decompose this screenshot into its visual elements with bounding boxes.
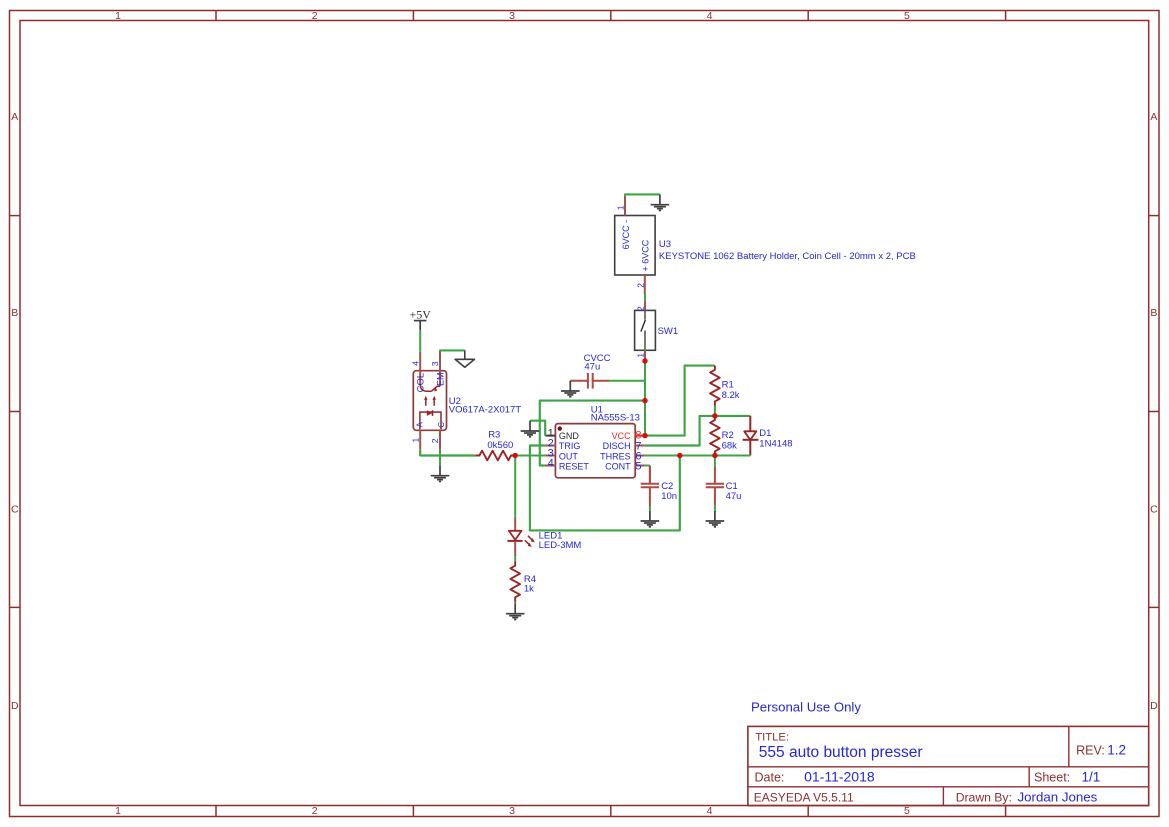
- svg-text:A: A: [416, 422, 425, 428]
- C1 value 47u: [726, 491, 742, 502]
- ground at U2 pin2: [431, 465, 450, 481]
- SW1 pin 2 number: [635, 306, 645, 311]
- diode D1: [743, 416, 759, 456]
- U2 pin 2 number: [430, 438, 440, 443]
- U2 phototransistor: [420, 371, 440, 392]
- wire U2 pin1 to R3: [420, 450, 475, 456]
- drawn by label: [956, 790, 1012, 804]
- U1 pin name GND: [559, 431, 580, 441]
- resistor R3: [475, 451, 515, 461]
- U2 pin name A: [416, 422, 425, 428]
- C1 refdes: [726, 481, 738, 492]
- battery holder U3 body: [615, 216, 655, 276]
- op-amp U1 body: [555, 424, 635, 478]
- +5V label: [409, 308, 431, 322]
- svg-text:3: 3: [430, 361, 440, 366]
- title block grid: [748, 726, 1149, 805]
- svg-text:10n: 10n: [661, 491, 677, 502]
- sheet value 1/1: [1082, 770, 1101, 785]
- svg-text:1N4148: 1N4148: [759, 438, 792, 449]
- U3 pin 1: [624, 196, 626, 216]
- ground at C2: [641, 511, 660, 527]
- svg-text:TITLE:: TITLE:: [755, 731, 789, 743]
- ground at R4: [506, 603, 525, 619]
- svg-text:Jordan Jones: Jordan Jones: [1018, 790, 1098, 805]
- wire +5V to U2 pin4: [419, 330, 421, 352]
- U1 pin name VCC: [612, 431, 632, 441]
- svg-text:B: B: [1150, 307, 1157, 319]
- ground at C1: [706, 511, 725, 527]
- U3 pin 2: [644, 275, 646, 294]
- svg-text:LED-3MM: LED-3MM: [539, 540, 582, 551]
- U3 value KEYSTONE 1062: [659, 251, 916, 262]
- svg-text:2: 2: [635, 306, 645, 311]
- wire battery to switch: [644, 294, 646, 301]
- svg-text:GND: GND: [559, 431, 580, 441]
- U1 pin name CONT: [605, 461, 631, 471]
- R3 value 0k560: [487, 440, 513, 451]
- svg-text:1: 1: [635, 353, 645, 358]
- resistor R1: [710, 366, 720, 406]
- svg-text:D: D: [1150, 700, 1158, 712]
- svg-text:Date:: Date:: [755, 771, 785, 785]
- U1 pin 7 DISCH stub: [635, 445, 645, 447]
- svg-text:01-11-2018: 01-11-2018: [804, 769, 875, 785]
- U3 pin 2 number: [635, 283, 645, 288]
- LED1 refdes: [539, 530, 563, 541]
- date label: [755, 771, 785, 785]
- D1 value 1N4148: [759, 438, 792, 449]
- svg-text:VCC: VCC: [612, 431, 632, 441]
- power flag +5V: [414, 321, 427, 331]
- svg-text:4: 4: [411, 361, 421, 366]
- svg-text:2: 2: [430, 438, 440, 443]
- svg-text:COL: COL: [415, 373, 426, 393]
- svg-text:B: B: [11, 307, 18, 319]
- U1 pin name OUT: [559, 451, 579, 461]
- U2 refdes: [449, 396, 461, 407]
- svg-text:D1: D1: [759, 428, 771, 439]
- R4 refdes: [524, 574, 536, 585]
- wire battery pin1 to ground: [625, 194, 660, 195]
- svg-text:DISCH: DISCH: [603, 441, 631, 451]
- U1 pin number 2: [548, 438, 554, 450]
- U2 pin name EM: [436, 373, 446, 387]
- svg-text:1: 1: [115, 805, 121, 817]
- U2 pin 1 number: [411, 438, 421, 443]
- wire R4 to ground: [514, 602, 516, 604]
- capacitor C2: [641, 466, 659, 511]
- D1 refdes: [759, 428, 771, 439]
- U2 pin 4 number: [411, 361, 421, 366]
- wire U2 pin3 to ground: [440, 349, 465, 352]
- U1 pin 1 GND stub: [545, 435, 555, 437]
- svg-text:1/1: 1/1: [1082, 770, 1101, 785]
- U1 pin number 5: [635, 461, 641, 473]
- svg-text:1: 1: [115, 10, 121, 22]
- U2 pin 3 number: [430, 361, 440, 366]
- capacitor CVCC: [570, 373, 609, 389]
- svg-text:EASYEDA V5.5.11: EASYEDA V5.5.11: [754, 790, 854, 804]
- U1 pin 6 THRES stub: [635, 455, 645, 457]
- svg-text:3: 3: [509, 805, 515, 817]
- U2 pin 2: [439, 430, 441, 449]
- svg-text:CONT: CONT: [605, 461, 631, 471]
- R2 refdes: [722, 430, 734, 441]
- svg-text:1: 1: [411, 438, 421, 443]
- U1 pin name THRES: [600, 451, 631, 461]
- wire R3 to OUT: [515, 455, 545, 457]
- wire CVCC to VCC: [609, 380, 645, 382]
- drawn by value Jordan Jones: [1018, 790, 1098, 805]
- U1 value NA555S-13: [591, 413, 640, 424]
- U3 pin 1 number: [616, 205, 626, 210]
- svg-text:1k: 1k: [524, 583, 534, 594]
- svg-text:4: 4: [707, 805, 713, 817]
- svg-text:4: 4: [707, 10, 713, 22]
- R1 value 8.2k: [722, 390, 740, 401]
- text Personal Use Only: [751, 700, 861, 715]
- wire VCC vertical: [644, 361, 646, 436]
- SW1 actuator: [641, 310, 646, 347]
- node pin8 junction: [643, 433, 648, 438]
- svg-text:3: 3: [509, 10, 515, 22]
- wire R1 to rail: [714, 406, 716, 416]
- svg-text:OUT: OUT: [559, 451, 579, 461]
- CVCC refdes: [584, 353, 611, 364]
- wire RESET rail: [540, 401, 645, 466]
- R1 refdes: [722, 380, 734, 391]
- svg-text:TRIG: TRIG: [559, 441, 581, 451]
- svg-text:KEYSTONE 1062 Battery Holder,: KEYSTONE 1062 Battery Holder, Coin Cell …: [659, 251, 916, 262]
- wire U1 pin1 to ground: [530, 421, 545, 436]
- LED1 value LED-3MM: [539, 540, 582, 551]
- svg-text:VO617A-2X017T: VO617A-2X017T: [449, 405, 522, 416]
- U3 pin name 6VCC -: [621, 220, 631, 250]
- svg-text:RESET: RESET: [559, 461, 590, 471]
- node OUT junction: [513, 453, 518, 458]
- date value 01-11-2018: [804, 769, 875, 785]
- svg-text:C: C: [11, 503, 19, 515]
- signal ground at U2 pin3: [455, 350, 474, 367]
- rev value 1.2: [1107, 742, 1126, 757]
- LED LED1: [507, 517, 535, 556]
- svg-text:C: C: [1150, 503, 1158, 515]
- svg-text:Drawn By:: Drawn By:: [956, 790, 1012, 804]
- SW1 pin 1: [644, 347, 646, 361]
- svg-text:D: D: [11, 700, 19, 712]
- svg-text:1: 1: [616, 205, 626, 210]
- svg-text:+5V: +5V: [409, 308, 431, 322]
- svg-text:2: 2: [312, 10, 318, 22]
- wire THRES rail: [645, 455, 751, 457]
- C2 refdes: [661, 481, 673, 492]
- wire LED to R4: [514, 556, 516, 561]
- U1 pin 8 VCC stub: [635, 435, 645, 437]
- svg-text:68k: 68k: [722, 440, 738, 451]
- node VCC junction at SW1: [643, 359, 648, 364]
- wire DISCH rail: [645, 416, 751, 446]
- junction dots overlay: [513, 358, 718, 458]
- optocoupler U2 body: [413, 371, 446, 431]
- svg-text:U3: U3: [659, 239, 671, 250]
- easyeda version text: [754, 790, 854, 804]
- svg-text:47u: 47u: [726, 491, 742, 502]
- U1 pin 3 OUT stub: [545, 455, 555, 457]
- rev label: [1076, 743, 1105, 757]
- capacitor C1: [706, 456, 724, 511]
- U1 pin number 6: [635, 451, 641, 463]
- svg-text:NA555S-13: NA555S-13: [591, 413, 640, 424]
- ground at CVCC: [561, 381, 580, 397]
- U2 pin 3: [439, 351, 441, 371]
- title text 555 auto button presser: [759, 744, 923, 761]
- svg-text:0k560: 0k560: [487, 440, 513, 451]
- svg-text:A: A: [1150, 111, 1157, 123]
- svg-text:SW1: SW1: [658, 326, 679, 337]
- switch SW1 body: [635, 310, 656, 350]
- U1 pin 5 CONT stub: [635, 465, 645, 467]
- svg-text:Personal Use Only: Personal Use Only: [751, 700, 861, 715]
- svg-text:Sheet:: Sheet:: [1034, 771, 1070, 785]
- U2 pin name C: [437, 422, 446, 428]
- wire TRIG loop: [530, 446, 680, 531]
- U2 pin name COL: [415, 373, 426, 393]
- U1 pin number 4: [548, 458, 554, 470]
- wire U2 pin2 to ground: [439, 450, 441, 466]
- svg-text:5: 5: [904, 10, 910, 22]
- node THRES-C1 junction: [712, 453, 717, 458]
- U2 inner LED box: [420, 412, 441, 429]
- svg-text:1.2: 1.2: [1107, 742, 1126, 757]
- R4 value 1k: [524, 583, 534, 594]
- svg-text:2: 2: [635, 283, 645, 288]
- U1 pin1 marker dot: [558, 426, 562, 430]
- U2 light arrows: [424, 396, 436, 406]
- U1 pin number 1: [548, 427, 554, 439]
- U2 pin 1: [419, 430, 421, 449]
- SW1 pin 2: [644, 301, 646, 311]
- svg-text:2: 2: [312, 805, 318, 817]
- C2 value 10n: [661, 491, 677, 502]
- node R1-R2-D1 junction: [712, 413, 717, 418]
- svg-text:5: 5: [635, 461, 641, 473]
- svg-text:4: 4: [548, 458, 554, 470]
- SW1 refdes: [658, 326, 679, 337]
- CVCC value 47u: [584, 362, 600, 373]
- U2 value VO617A-2X017T: [449, 405, 522, 416]
- svg-text:8.2k: 8.2k: [722, 390, 740, 401]
- svg-text:A: A: [11, 111, 18, 123]
- node RESET rail junction: [643, 398, 648, 403]
- U1 pin name DISCH: [603, 441, 631, 451]
- U1 pin name TRIG: [559, 441, 581, 451]
- U2 internal LED: [427, 410, 433, 416]
- SW1 pin 1 number: [635, 353, 645, 358]
- node THRES-TRIG junction: [677, 453, 682, 458]
- svg-text:EM: EM: [436, 373, 446, 387]
- resistor R2: [710, 416, 720, 456]
- wire OUT to LED: [514, 456, 516, 517]
- U1 pin 2 TRIG stub: [545, 445, 555, 447]
- U1 pin name RESET: [559, 461, 590, 471]
- wire VCC to R1: [645, 366, 715, 436]
- svg-text:C: C: [437, 422, 446, 428]
- svg-text:555 auto button presser: 555 auto button presser: [759, 744, 923, 761]
- svg-text:+ 6VCC: + 6VCC: [641, 239, 651, 271]
- U1 refdes: [591, 405, 603, 416]
- sheet label: [1034, 771, 1070, 785]
- U3 refdes: [659, 239, 671, 250]
- svg-text:5: 5: [904, 805, 910, 817]
- U3 pin name + 6VCC: [641, 239, 651, 271]
- U2 pin 4: [419, 352, 421, 371]
- U1 pin 4 RESET stub: [545, 465, 556, 467]
- U1 pin number 7: [635, 441, 641, 453]
- svg-text:47u: 47u: [584, 362, 600, 373]
- ground at U1 pin1: [521, 421, 540, 437]
- svg-text:6VCC -: 6VCC -: [621, 220, 631, 250]
- R3 refdes: [488, 430, 500, 441]
- U1 pin number 8: [635, 430, 641, 442]
- title block TITLE label: [755, 731, 789, 743]
- U1 pin number 3: [548, 448, 554, 460]
- R2 value 68k: [722, 440, 738, 451]
- ground near battery: [651, 194, 670, 210]
- svg-text:REV:: REV:: [1076, 743, 1105, 757]
- resistor R4: [510, 562, 520, 602]
- svg-text:THRES: THRES: [600, 451, 631, 461]
